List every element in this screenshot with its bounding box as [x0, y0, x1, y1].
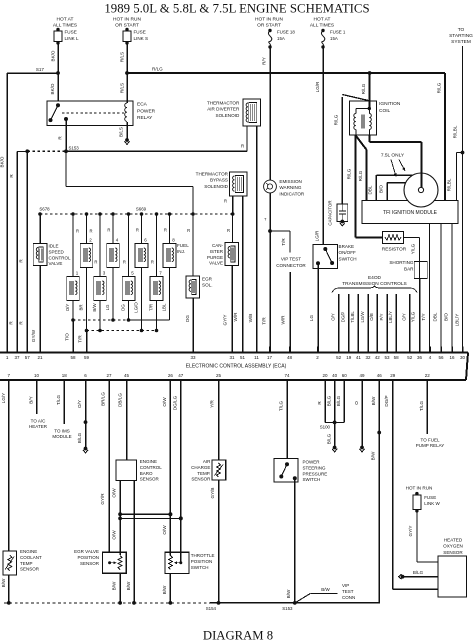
svg-text:S17: S17 — [36, 67, 45, 72]
svg-text:OXYGEN: OXYGEN — [443, 544, 463, 549]
engine control baro sensor — [116, 459, 162, 482]
node S17 — [7, 67, 60, 75]
svg-text:FUSE: FUSE — [424, 495, 436, 500]
svg-text:ALL TIMES: ALL TIMES — [310, 23, 334, 29]
canister purge valve — [207, 214, 239, 266]
svg-text:SENSOR: SENSOR — [140, 477, 160, 482]
svg-text:BK/O: BK/O — [51, 50, 56, 61]
svg-text:STEERING: STEERING — [303, 465, 327, 470]
svg-text:6: 6 — [144, 238, 147, 243]
svg-text:Y/LG: Y/LG — [411, 243, 416, 254]
EGR valve position sensor — [74, 549, 126, 573]
relay dashed link — [62, 112, 124, 114]
wire R/LG bus drop to TFI module — [437, 73, 446, 200]
wire BR injector 2 — [79, 268, 87, 331]
svg-text:B/LG: B/LG — [413, 570, 424, 575]
svg-text:R: R — [136, 228, 139, 233]
svg-text:30: 30 — [460, 355, 466, 360]
svg-text:O/Y: O/Y — [65, 304, 70, 312]
svg-text:AIR: AIR — [203, 459, 211, 464]
injector bank2 bus — [85, 329, 159, 333]
svg-text:LG/O: LG/O — [134, 302, 139, 313]
svg-text:2: 2 — [89, 238, 92, 243]
svg-text:P/Y: P/Y — [379, 313, 384, 320]
svg-text:SWITCH: SWITCH — [303, 477, 321, 482]
svg-text:O/Y: O/Y — [77, 400, 82, 408]
R/LG bus wire y73 — [127, 67, 445, 74]
svg-text:T/R: T/R — [78, 335, 83, 343]
svg-text:DG: DG — [185, 315, 190, 322]
svg-text:VIP: VIP — [342, 583, 349, 588]
splice S153 lower — [282, 601, 296, 611]
wire B/O TFI module to ECA pin 16 — [444, 224, 453, 353]
svg-text:POWER: POWER — [303, 460, 321, 465]
svg-text:S100: S100 — [320, 425, 331, 430]
svg-text:57: 57 — [25, 355, 31, 360]
svg-text:HOT IN RUN: HOT IN RUN — [255, 17, 283, 23]
svg-text:SHORTING: SHORTING — [389, 260, 414, 265]
svg-text:CONTROL: CONTROL — [140, 465, 162, 470]
heated oxygen sensor — [438, 538, 467, 597]
wire B/W baro sensor to ground — [126, 480, 136, 605]
svg-text:41: 41 — [356, 355, 362, 360]
svg-text:15A: 15A — [277, 36, 285, 41]
svg-text:POSITION: POSITION — [191, 559, 213, 564]
svg-text:EMISSION: EMISSION — [279, 179, 301, 184]
wire R bypass solenoid to injector feed bus — [224, 196, 233, 214]
svg-text:POWER: POWER — [137, 108, 156, 114]
wire T/R bank2 to ECA pin 59 — [78, 331, 87, 353]
wire R to ECA pin 57 — [19, 151, 28, 352]
fuse 18 F3 — [255, 17, 295, 49]
svg-text:3: 3 — [103, 271, 106, 276]
svg-text:VALVE: VALVE — [49, 261, 63, 266]
svg-text:R: R — [187, 228, 190, 233]
E4OD transmission controls callout — [332, 275, 417, 293]
resistor — [355, 232, 406, 253]
ECA power relay box — [47, 101, 156, 125]
injector bank1 bus — [71, 301, 169, 322]
svg-text:S153: S153 — [69, 146, 80, 151]
power steering pressure switch — [274, 459, 327, 483]
relay coil — [125, 103, 127, 121]
svg-text:7: 7 — [159, 271, 162, 276]
title — [104, 1, 369, 15]
svg-text:ON/OFF: ON/OFF — [339, 250, 357, 255]
wire LG brake switch to ECA pin 2 — [309, 263, 318, 352]
wire B/LG S100 to ground stub — [326, 422, 337, 452]
svg-text:R: R — [227, 228, 230, 233]
svg-text:10: 10 — [34, 373, 40, 378]
fuel injector 4 — [107, 214, 120, 268]
svg-text:42: 42 — [375, 355, 381, 360]
svg-text:SYSTEM: SYSTEM — [451, 39, 471, 45]
wire DG EGR solenoid to ECA pin 33 — [185, 298, 193, 353]
svg-text:R: R — [90, 229, 93, 234]
node VIP tap — [268, 229, 272, 233]
svg-text:40: 40 — [332, 373, 338, 378]
svg-text:O/Y: O/Y — [402, 313, 407, 321]
wire P/Y E4OD to ECA — [379, 294, 387, 347]
wire BR/LG GY/R ECA pin 27 to EGR position sensor — [100, 386, 109, 552]
svg-text:R: R — [76, 229, 79, 234]
svg-text:53: 53 — [384, 355, 390, 360]
svg-text:SWITCH: SWITCH — [339, 256, 357, 261]
svg-text:T/O: T/O — [65, 333, 70, 341]
wire DG/P ECA pin 29 to oxygen sensor — [384, 386, 438, 589]
svg-text:SENSOR: SENSOR — [20, 567, 40, 572]
relay switch — [49, 103, 69, 122]
wire LBL injector 8 — [162, 268, 170, 321]
svg-text:R/LBL: R/LBL — [453, 125, 458, 138]
svg-text:BK/O: BK/O — [50, 83, 55, 94]
svg-text:27: 27 — [106, 373, 112, 378]
svg-text:B/O: B/O — [378, 185, 383, 193]
svg-text:GY/Y: GY/Y — [408, 526, 413, 537]
svg-text:MODULE: MODULE — [52, 434, 71, 439]
svg-text:56: 56 — [438, 355, 444, 360]
svg-text:45: 45 — [124, 373, 130, 378]
wire T/LG ECA pin 74 to PSP switch — [279, 386, 288, 459]
wire DBL TFI module to ECA pin 56 — [433, 224, 442, 353]
svg-text:R: R — [151, 260, 154, 265]
wire LG/W E4OD to ECA — [360, 294, 368, 347]
wire O/W baro sensor to reference bus — [111, 480, 122, 555]
svg-text:R: R — [9, 174, 14, 178]
svg-text:R: R — [9, 321, 14, 325]
svg-text:LBL/Y: LBL/Y — [455, 314, 460, 327]
svg-text:FUSE 18: FUSE 18 — [277, 30, 295, 35]
wire R feed S153 to thermactor air diverter — [66, 126, 247, 151]
svg-text:47: 47 — [178, 373, 184, 378]
svg-text:LG/Y: LG/Y — [1, 393, 6, 403]
capacitor tap diagonal — [342, 95, 369, 101]
svg-text:RESISTOR: RESISTOR — [382, 247, 407, 253]
svg-text:BARO: BARO — [140, 471, 153, 476]
svg-text:CAPACITOR: CAPACITOR — [328, 200, 333, 225]
svg-text:SWITCH: SWITCH — [191, 565, 209, 570]
svg-text:TO: TO — [458, 27, 465, 33]
svg-text:O: O — [354, 401, 359, 405]
svg-text:52: 52 — [336, 355, 342, 360]
reference bus lower — [120, 516, 183, 520]
svg-text:B/W: B/W — [126, 581, 131, 590]
svg-text:CONNECTOR: CONNECTOR — [276, 263, 306, 268]
svg-text:TO FUEL: TO FUEL — [421, 437, 440, 442]
svg-text:74: 74 — [284, 373, 290, 378]
EGR solenoid — [186, 276, 213, 298]
svg-text:17: 17 — [267, 355, 273, 360]
splice S154 — [206, 601, 221, 611]
svg-text:R: R — [94, 260, 97, 265]
svg-text:DG: DG — [121, 304, 126, 311]
svg-text:8: 8 — [172, 238, 175, 243]
svg-text:EGR: EGR — [202, 277, 213, 282]
svg-text:B/O: B/O — [444, 313, 449, 321]
svg-text:31: 31 — [229, 355, 235, 360]
svg-text:15A: 15A — [330, 36, 338, 41]
svg-text:37: 37 — [14, 355, 20, 360]
wire B/W PSP switch to S153 ground — [286, 478, 295, 603]
ECA bottom pin ticks and numbers — [8, 373, 431, 386]
splice S100 — [320, 421, 344, 430]
svg-text:VIP TEST: VIP TEST — [281, 257, 301, 262]
svg-text:11: 11 — [254, 355, 259, 360]
node S153 upper — [64, 146, 79, 154]
svg-text:B/W: B/W — [371, 396, 376, 405]
wire O ECA pin 49 stub — [354, 386, 365, 452]
svg-text:DB/LG: DB/LG — [118, 393, 123, 407]
wire B/W injector 3 — [92, 301, 100, 331]
svg-text:1989 5.0L & 5.8L & 7.5L ENGINE: 1989 5.0L & 5.8L & 7.5L ENGINE SCHEMATIC… — [104, 1, 369, 15]
wire T/LG ECA pin 18 to IMS module — [52, 386, 71, 439]
svg-text:T/R: T/R — [262, 317, 267, 325]
svg-text:R: R — [107, 228, 110, 233]
svg-text:T/LBL: T/LBL — [350, 311, 355, 323]
wire BK/O to ECA pin 1 — [0, 73, 7, 353]
svg-text:21: 21 — [37, 355, 43, 360]
idle speed control valve — [33, 214, 71, 266]
svg-text:THERMACTOR: THERMACTOR — [196, 172, 229, 177]
wire B/W ECA pin 46 to S153 ground — [371, 386, 382, 604]
svg-text:SENSOR: SENSOR — [80, 561, 100, 566]
svg-text:R/LG: R/LG — [347, 168, 352, 179]
svg-text:VALVE: VALVE — [209, 261, 223, 266]
svg-text:ENGINE: ENGINE — [20, 549, 37, 554]
svg-text:BR/LG: BR/LG — [101, 392, 106, 406]
svg-text:R: R — [123, 260, 126, 265]
svg-text:GY/B: GY/B — [210, 488, 215, 499]
wire R/LG coil primary to resistor run — [347, 135, 356, 237]
wire Y/LG shorting bar to ECA pin 36 — [411, 279, 420, 353]
svg-text:36: 36 — [417, 355, 423, 360]
svg-text:B/LG: B/LG — [326, 433, 331, 444]
svg-text:FUSE: FUSE — [134, 30, 146, 35]
svg-text:PURGE: PURGE — [207, 255, 223, 260]
svg-text:29: 29 — [390, 373, 396, 378]
svg-text:BR: BR — [79, 304, 84, 310]
svg-text:CHARGE: CHARGE — [191, 465, 210, 470]
svg-text:S678: S678 — [39, 207, 50, 212]
svg-text:19: 19 — [346, 355, 352, 360]
wire Y/LG resistor to shorting bar — [403, 237, 419, 261]
svg-text:THERMACTOR: THERMACTOR — [207, 101, 240, 106]
svg-text:T/R: T/R — [281, 238, 286, 246]
svg-text:PRESSURE: PRESSURE — [303, 471, 328, 476]
svg-text:SENSOR: SENSOR — [443, 550, 463, 555]
svg-text:GY/W: GY/W — [31, 329, 36, 342]
svg-text:T/R: T/R — [149, 304, 154, 311]
TFI ignition module box — [362, 200, 458, 223]
fuel injector 6 — [135, 214, 148, 268]
svg-text:R/LG: R/LG — [437, 82, 442, 93]
svg-text:B/W: B/W — [371, 451, 376, 460]
wire DG injector 5 — [121, 301, 129, 321]
wire T/O bank1 to ECA pin 58 — [65, 320, 74, 353]
emission warning indicator — [264, 179, 305, 196]
wire T/LBL E4OD to ECA — [350, 294, 358, 347]
svg-text:OR START: OR START — [115, 23, 139, 29]
svg-text:ALL TIMES: ALL TIMES — [53, 23, 77, 29]
fuse link W — [406, 486, 441, 513]
throttle position switch — [165, 552, 215, 573]
svg-text:O/W: O/W — [162, 525, 167, 535]
svg-text:16: 16 — [449, 355, 455, 360]
svg-text:B/W: B/W — [321, 587, 330, 592]
fuse link L F1 — [53, 17, 79, 45]
svg-text:26: 26 — [168, 373, 174, 378]
svg-text:LG/W: LG/W — [360, 311, 365, 323]
wire B/W ECT sensor to ground — [1, 575, 11, 605]
svg-text:SENSOR: SENSOR — [191, 477, 211, 482]
svg-text:52: 52 — [407, 355, 413, 360]
ground bus solid — [210, 602, 379, 604]
shorting bar — [389, 260, 427, 279]
svg-text:B/LG: B/LG — [77, 432, 82, 443]
svg-text:T/Y: T/Y — [421, 313, 426, 320]
svg-text:S669: S669 — [136, 207, 147, 212]
svg-text:59: 59 — [84, 355, 90, 360]
brake on/off switch — [313, 244, 357, 268]
fuel injectors label — [177, 243, 189, 254]
fuse 1 F4 — [310, 17, 346, 49]
svg-text:5: 5 — [131, 271, 134, 276]
svg-text:R/LG: R/LG — [358, 170, 363, 181]
svg-text:T/LG: T/LG — [419, 400, 424, 411]
svg-text:R/LG: R/LG — [361, 83, 366, 94]
svg-text:B/W: B/W — [1, 578, 6, 587]
svg-text:7: 7 — [8, 373, 11, 378]
7.5L only callout — [381, 153, 405, 177]
svg-text:DG/P: DG/P — [341, 312, 346, 323]
svg-text:O/Y: O/Y — [330, 313, 335, 321]
svg-text:PUMP RELAY: PUMP RELAY — [416, 443, 445, 448]
svg-text:WARNING: WARNING — [279, 185, 301, 190]
svg-text:CONTROL: CONTROL — [49, 255, 71, 260]
svg-text:R: R — [317, 401, 322, 405]
fuel injector 1 — [67, 214, 80, 301]
wire GY/B ACT sensor to S154 ground — [210, 480, 219, 603]
svg-text:HOT AT: HOT AT — [57, 17, 74, 23]
svg-text:GY/Y: GY/Y — [223, 315, 228, 326]
svg-text:B/LG: B/LG — [336, 395, 341, 406]
fuel injector 5 — [122, 214, 135, 301]
svg-text:IDLE: IDLE — [49, 244, 59, 249]
svg-text:BYPASS: BYPASS — [210, 178, 228, 183]
wire T/Y TFI module to ECA pin 4 — [421, 224, 430, 353]
svg-text:R/LS: R/LS — [120, 83, 125, 93]
svg-text:LG: LG — [105, 304, 110, 310]
fuel injector 7 — [150, 214, 163, 301]
junction R/LBL — [461, 151, 465, 155]
svg-text:1: 1 — [6, 355, 9, 360]
wire W/R VIP connector to ECA pin 48 — [281, 272, 291, 353]
air charge temp sensor — [191, 459, 226, 482]
wire R feed S153 down to EGR solenoid branch — [66, 151, 193, 276]
svg-text:25: 25 — [216, 373, 222, 378]
thermactor bypass solenoid — [196, 172, 247, 197]
svg-text:TEST: TEST — [342, 589, 354, 594]
svg-text:R/LG: R/LG — [152, 67, 163, 72]
ECA connector band — [0, 353, 468, 381]
svg-text:LG: LG — [309, 315, 314, 322]
svg-text:HEATER: HEATER — [29, 424, 48, 429]
to starting system lead — [449, 27, 473, 353]
ignition coil — [350, 101, 401, 135]
wire LG/Y ECA pin 7 to ECT sensor — [1, 386, 9, 551]
svg-text:S154: S154 — [206, 606, 217, 611]
svg-text:B/Y: B/Y — [29, 396, 34, 403]
svg-text:RELAY: RELAY — [137, 115, 153, 121]
svg-text:4: 4 — [429, 355, 432, 360]
wire T/R injector 7 — [149, 301, 157, 331]
svg-text:DBL: DBL — [368, 185, 373, 194]
ECA top pin ticks and numbers — [6, 347, 466, 360]
svg-text:TEMP.: TEMP. — [197, 471, 210, 476]
svg-text:4: 4 — [116, 238, 119, 243]
capacitor — [328, 200, 348, 226]
wire DB/LG ECA pin 45 to baro sensor — [118, 386, 127, 460]
svg-text:ENGINE: ENGINE — [140, 459, 157, 464]
injector feed bus S678 S669 — [39, 207, 232, 215]
svg-text:7.5L ONLY: 7.5L ONLY — [381, 153, 405, 159]
svg-text:2: 2 — [316, 355, 319, 360]
svg-text:SOLENOID: SOLENOID — [204, 184, 228, 189]
svg-text:60: 60 — [342, 373, 348, 378]
relay coil ground B/LS — [119, 122, 130, 144]
VIP test connector upper — [270, 231, 306, 268]
svg-text:INJ.: INJ. — [177, 249, 185, 254]
svg-text:E4OD: E4OD — [368, 275, 382, 281]
svg-text:HOT IN RUN: HOT IN RUN — [406, 486, 433, 491]
svg-text:TFI IGNITION MODULE: TFI IGNITION MODULE — [383, 210, 438, 216]
wire B/W EGR position sensor to ground — [112, 573, 123, 605]
fuse link S F2 — [113, 17, 148, 45]
wire GY/Y fuse link W to oxygen sensor — [408, 511, 438, 562]
svg-text:TO A/C: TO A/C — [31, 418, 46, 423]
svg-text:FUEL: FUEL — [177, 243, 189, 248]
svg-text:48: 48 — [287, 355, 293, 360]
svg-text:INDICATOR: INDICATOR — [279, 191, 305, 196]
wire GY/Y purge valve to ECA pin 31 — [223, 266, 233, 353]
wire R/LG coil to TFI module — [355, 135, 366, 200]
svg-text:32: 32 — [365, 355, 371, 360]
svg-text:Y/R: Y/R — [210, 399, 215, 407]
wire LG/R fuse 1 to brake switch — [315, 47, 324, 244]
dashed jumper S153 to pins 37 57 wires — [17, 149, 66, 153]
svg-text:1: 1 — [76, 271, 79, 276]
svg-text:R/LBL: R/LBL — [447, 178, 452, 191]
svg-text:T: T — [264, 217, 267, 222]
wire O/Y E4OD to ECA — [330, 294, 338, 347]
distributor — [404, 173, 438, 207]
svg-text:HEATED: HEATED — [444, 538, 463, 543]
wire Y/R ECA pin 25 to ACT sensor — [210, 386, 219, 460]
wire LBL/Y E4OD to ECA — [388, 294, 396, 347]
wire R/LS fuse link S to relay coil — [120, 43, 128, 103]
svg-text:LINK S: LINK S — [134, 36, 149, 41]
svg-text:O/W: O/W — [162, 397, 167, 407]
wire T/LG ECA pin 22 to fuel pump relay — [416, 386, 445, 448]
ground bus dashed — [4, 602, 210, 604]
wire W/R bypass solenoid to ECA pin 51 — [233, 196, 243, 353]
svg-text:R: R — [19, 259, 24, 263]
svg-text:T/LG: T/LG — [279, 400, 284, 411]
svg-text:BRAKE: BRAKE — [339, 244, 355, 249]
wire coil tower to distributor — [369, 135, 423, 192]
VIP test conn lower — [295, 583, 355, 603]
svg-text:R/Y: R/Y — [262, 57, 267, 65]
